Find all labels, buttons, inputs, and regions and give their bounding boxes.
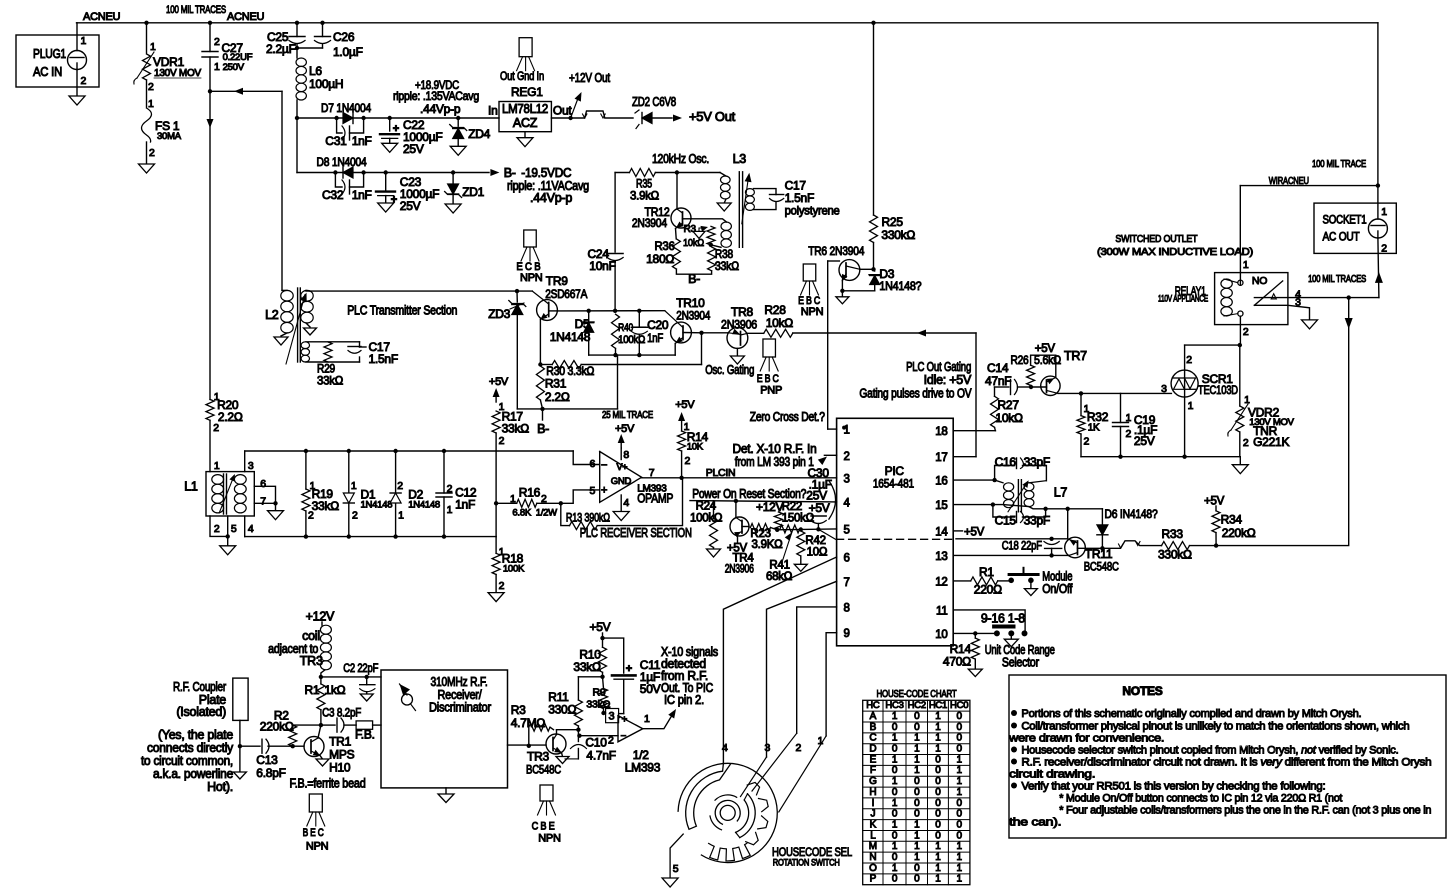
wire PLC out gating xyxy=(793,332,976,334)
svg-text:0: 0 xyxy=(935,765,941,776)
tuning symbol (RF box) xyxy=(400,684,411,695)
svg-text:C: C xyxy=(869,733,876,744)
svg-text:G221K: G221K xyxy=(1253,435,1289,449)
wire PIC pin18 to R27 xyxy=(953,430,995,432)
svg-text:HOUSE-CODE CHART: HOUSE-CODE CHART xyxy=(877,688,958,700)
wire PIC pin10 to selector xyxy=(953,632,997,634)
svg-text:2: 2 xyxy=(499,580,505,592)
resistor R29 33k + capacitor C17 1.5nF tank xyxy=(306,341,360,343)
svg-text:6: 6 xyxy=(590,458,596,470)
svg-text:R34: R34 xyxy=(1221,513,1243,527)
svg-text:R16: R16 xyxy=(519,486,541,500)
svg-text:D7 1N4004: D7 1N4004 xyxy=(321,101,371,115)
package symbol TR8 (E B C PNP) xyxy=(763,339,776,357)
svg-text:Selector: Selector xyxy=(1002,656,1039,670)
varistor VDR1 xyxy=(146,23,148,53)
svg-text:5: 5 xyxy=(673,863,679,875)
wire R26 top / +5V xyxy=(1031,355,1056,377)
wire PIC pin9 to switch wire 1 xyxy=(826,633,837,736)
ground (C2) xyxy=(360,694,373,701)
svg-text:NPN: NPN xyxy=(306,841,329,853)
ground (R18) xyxy=(488,593,504,602)
svg-text:PLC Transmitter Section: PLC Transmitter Section xyxy=(347,304,457,318)
svg-text:2: 2 xyxy=(1243,437,1249,449)
ground (main right) xyxy=(1239,457,1241,465)
wire receiver bottom bus xyxy=(245,536,496,538)
capacitor C31 1nF xyxy=(337,118,342,133)
svg-text:ACNEU: ACNEU xyxy=(227,11,265,23)
svg-text:0: 0 xyxy=(892,809,898,820)
svg-text:L6: L6 xyxy=(309,64,322,78)
ground (opamp pin4) xyxy=(620,495,622,512)
resistor R42 10 xyxy=(797,531,805,556)
trimmer R37 10k xyxy=(707,226,715,245)
svg-text:E: E xyxy=(870,754,877,765)
svg-text:1N4148?: 1N4148? xyxy=(879,279,922,293)
svg-text:0: 0 xyxy=(892,787,898,798)
arrow (current direction left) xyxy=(234,88,243,95)
svg-text:1: 1 xyxy=(892,711,898,722)
wire relay pin2 xyxy=(1239,316,1241,345)
svg-text:C31: C31 xyxy=(325,134,347,148)
ground (selector common) xyxy=(1010,633,1012,639)
wire R20 to L1 xyxy=(209,420,211,471)
svg-text:V+: V+ xyxy=(617,462,628,472)
svg-text:8: 8 xyxy=(623,449,629,461)
svg-text:1: 1 xyxy=(1243,259,1249,271)
ground (R24) xyxy=(707,549,721,557)
wire receiver top bus xyxy=(245,450,574,452)
svg-text:TR7: TR7 xyxy=(1064,349,1087,363)
wire opamp minus input xyxy=(561,490,600,503)
svg-text:C18 22pF: C18 22pF xyxy=(1002,539,1042,553)
package symbol TR3 (C B E NPN) xyxy=(540,785,553,801)
svg-text:47nF: 47nF xyxy=(985,374,1011,388)
package symbol TR6 (E B C NPN) xyxy=(803,264,816,281)
svg-text:5: 5 xyxy=(231,523,237,535)
wire ACNEU top bus xyxy=(77,22,1378,24)
svg-text:330kΩ: 330kΩ xyxy=(881,228,915,242)
wire TR6 base rail to PIC pin1 xyxy=(827,261,829,429)
svg-text:100kΩ: 100kΩ xyxy=(618,334,645,346)
svg-text:R36: R36 xyxy=(655,239,676,253)
ground (module button) xyxy=(1030,580,1032,588)
svg-text:C14: C14 xyxy=(987,361,1009,375)
svg-text:I: I xyxy=(872,798,875,809)
svg-text:Power On Reset Section?: Power On Reset Section? xyxy=(692,487,806,501)
svg-text:VDR1: VDR1 xyxy=(153,55,185,69)
svg-text:+5V: +5V xyxy=(675,399,695,411)
svg-text:D6 IN4148?: D6 IN4148? xyxy=(1105,507,1158,521)
package symbol TR9 (E C B NPN) xyxy=(524,230,537,247)
svg-text:8: 8 xyxy=(844,602,850,614)
svg-text:6.8pF: 6.8pF xyxy=(256,766,285,780)
svg-text:33kΩ: 33kΩ xyxy=(312,499,340,513)
transformer L2 aux winding xyxy=(301,342,309,349)
svg-text:0: 0 xyxy=(935,776,941,787)
svg-text:2: 2 xyxy=(81,75,87,87)
svg-text:25V: 25V xyxy=(1134,434,1155,448)
resistor R35 3.9k xyxy=(615,172,629,174)
svg-text:1: 1 xyxy=(935,733,941,744)
svg-text:0: 0 xyxy=(956,809,962,820)
svg-text:connects directly: connects directly xyxy=(147,741,234,755)
svg-text:E B C: E B C xyxy=(757,373,779,385)
svg-text:L2: L2 xyxy=(265,308,279,322)
svg-text:NOTES: NOTES xyxy=(1122,684,1162,698)
svg-text:1: 1 xyxy=(956,852,962,863)
svg-text:100 MIL TRACES: 100 MIL TRACES xyxy=(1308,274,1366,285)
svg-text:1: 1 xyxy=(892,819,898,830)
svg-text:10Ω: 10Ω xyxy=(807,547,828,559)
rotary switch wire 1 tail xyxy=(779,736,826,812)
arrow L2 adjustment xyxy=(286,295,305,364)
wire TR12 emitter to R36 xyxy=(675,229,678,239)
svg-text:+5V: +5V xyxy=(964,527,985,539)
wire VDR1 to FS1 xyxy=(146,80,148,107)
capacitor C27 0.22UF 250V xyxy=(209,23,211,52)
svg-text:4: 4 xyxy=(623,497,629,509)
svg-text:TR3: TR3 xyxy=(527,750,549,764)
svg-text:R26: R26 xyxy=(1011,353,1029,367)
wire PIC pin7 to switch wire 3 xyxy=(767,581,837,757)
svg-text:C13: C13 xyxy=(256,753,278,767)
svg-text:SWITCHED OUTLET: SWITCHED OUTLET xyxy=(1115,233,1198,245)
svg-text:2N3906: 2N3906 xyxy=(725,564,754,576)
svg-text:9-16 1-8: 9-16 1-8 xyxy=(981,612,1025,626)
svg-text:10: 10 xyxy=(935,629,947,641)
wire L1 pin4 to bottom bus xyxy=(244,516,246,537)
svg-text:R27: R27 xyxy=(998,398,1020,412)
svg-text:220kΩ: 220kΩ xyxy=(260,720,294,734)
svg-text:+5V: +5V xyxy=(809,501,830,515)
svg-text:Portions of this schematic ori: Portions of this schematic originally co… xyxy=(1021,708,1361,720)
svg-text:25V: 25V xyxy=(403,142,424,156)
svg-text:2: 2 xyxy=(1243,326,1249,338)
svg-text:3: 3 xyxy=(248,460,254,472)
svg-text:1: 1 xyxy=(510,493,516,505)
wire switch common 5 to ground xyxy=(670,834,683,878)
resistor R16 6.8K 1/2W xyxy=(496,502,517,504)
svg-text:1: 1 xyxy=(214,61,220,73)
wire relay pin1 (WIRACNEU) xyxy=(1239,252,1241,285)
svg-text:+5V Out: +5V Out xyxy=(689,110,736,124)
wire R17 node down to R16/R18 xyxy=(495,451,497,537)
rotary switch wire 2 tail xyxy=(752,733,797,791)
ground (L1 bottom) xyxy=(220,546,236,555)
resistor R14 470 xyxy=(974,633,976,638)
capacitor C20 1nF xyxy=(638,311,640,328)
svg-text:C15: C15 xyxy=(995,514,1017,528)
svg-text:2: 2 xyxy=(213,422,219,434)
net label B- xyxy=(542,409,544,420)
svg-text:NPN: NPN xyxy=(801,306,824,318)
svg-text:TR3: TR3 xyxy=(300,654,323,668)
svg-text:PNP: PNP xyxy=(760,385,782,397)
ground (L3 primary) xyxy=(724,199,726,203)
ground (ZD1) xyxy=(445,204,461,213)
svg-text:L7: L7 xyxy=(1054,486,1068,500)
wire TR3 collector node xyxy=(557,729,579,731)
wire TR9 emitter down xyxy=(539,319,541,365)
wire C25/C26 join xyxy=(297,47,323,49)
svg-text:0: 0 xyxy=(892,722,898,733)
wire PIC pin1 stub xyxy=(828,428,837,430)
svg-text:1: 1 xyxy=(935,744,941,755)
svg-text:1: 1 xyxy=(935,711,941,722)
svg-text:HC0: HC0 xyxy=(950,700,968,711)
svg-text:the can).: the can). xyxy=(1009,817,1061,829)
svg-text:−: − xyxy=(621,731,627,742)
wire R40 rail down xyxy=(617,355,619,409)
ground (PLUG1) xyxy=(69,96,85,105)
svg-text:to circuit common,: to circuit common, xyxy=(141,754,233,768)
svg-text:0: 0 xyxy=(914,776,920,787)
wire to L2 rail xyxy=(210,90,282,92)
svg-text:1: 1 xyxy=(892,798,898,809)
svg-text:7: 7 xyxy=(260,496,266,508)
op-amp U2b 1/2 LM393 xyxy=(604,712,606,714)
wire PIC pin6 to switch wire 4 xyxy=(723,557,836,763)
wire PIC pin15 xyxy=(953,504,993,506)
svg-text:+5V: +5V xyxy=(590,620,611,634)
svg-text:TEC103D: TEC103D xyxy=(1198,383,1238,397)
wire relay pin2 node xyxy=(1185,344,1240,346)
wire L2 left rail xyxy=(281,91,283,290)
svg-text:30MA: 30MA xyxy=(157,131,182,142)
svg-text:100 MIL TRACE: 100 MIL TRACE xyxy=(1312,159,1366,170)
svg-text:F.B.: F.B. xyxy=(355,728,375,742)
wire L1 pin6/7 xyxy=(254,486,275,503)
svg-text:1K: 1K xyxy=(1088,423,1100,434)
svg-text:A: A xyxy=(870,711,877,722)
svg-text:R42: R42 xyxy=(805,535,825,547)
capacitor C32 1nF xyxy=(335,173,342,188)
svg-text:0: 0 xyxy=(914,863,920,874)
svg-text:120kHz Osc.: 120kHz Osc. xyxy=(652,152,709,166)
svg-text:PLCIN: PLCIN xyxy=(706,467,736,479)
resistor R25 330k xyxy=(873,23,875,215)
svg-text:−: − xyxy=(601,459,607,471)
svg-text:ZD4: ZD4 xyxy=(468,127,490,141)
svg-text:33kΩ: 33kΩ xyxy=(317,374,343,388)
svg-text:0: 0 xyxy=(892,744,898,755)
resistor R31 2.2 xyxy=(536,366,544,400)
svg-text:1: 1 xyxy=(914,830,920,841)
svg-text:10K: 10K xyxy=(687,442,704,453)
svg-text:1: 1 xyxy=(892,841,898,852)
svg-text:1: 1 xyxy=(914,744,920,755)
arrow B- out xyxy=(490,169,499,176)
ground (R14 470) xyxy=(968,669,982,677)
svg-text:33kΩ: 33kΩ xyxy=(715,259,739,273)
ground (relay pin3) xyxy=(1302,320,1318,329)
svg-text:0: 0 xyxy=(956,830,962,841)
svg-text:1: 1 xyxy=(914,754,920,765)
arrow +5V Out xyxy=(673,115,682,122)
wire RF out xyxy=(508,744,547,746)
transformer L2 left winding xyxy=(281,290,293,301)
svg-text:1: 1 xyxy=(644,713,650,725)
svg-text:C32: C32 xyxy=(322,188,344,202)
svg-text:MPS: MPS xyxy=(329,748,355,762)
svg-text:ACZ: ACZ xyxy=(513,116,538,130)
rotary switch HOUSECODE SEL outer ring xyxy=(678,763,777,862)
svg-text:ROTATION SWITCH: ROTATION SWITCH xyxy=(773,858,840,869)
wire REG1 out xyxy=(551,117,570,119)
wire top bus right drop xyxy=(1377,23,1379,186)
svg-text:GND: GND xyxy=(611,476,632,487)
svg-text:2: 2 xyxy=(352,510,358,522)
svg-text:NPN: NPN xyxy=(520,272,543,284)
svg-text:P: P xyxy=(870,874,877,885)
svg-text:Det. X-10 R.F. In: Det. X-10 R.F. In xyxy=(733,442,817,456)
svg-text:+5V: +5V xyxy=(1035,343,1056,355)
svg-text:0: 0 xyxy=(935,798,941,809)
svg-text:1.5nF: 1.5nF xyxy=(369,352,398,366)
svg-text:2N3904: 2N3904 xyxy=(632,216,667,230)
svg-text:5: 5 xyxy=(590,485,596,497)
svg-text:1: 1 xyxy=(1244,394,1250,406)
wire TR6 emitter xyxy=(841,281,843,291)
rotary switch bottom teeth xyxy=(709,843,751,861)
svg-text:+: + xyxy=(622,715,628,726)
svg-text:1nF: 1nF xyxy=(647,331,663,345)
svg-text:2: 2 xyxy=(1381,243,1387,255)
connector PLUG1 AC IN xyxy=(16,35,99,87)
svg-text:2: 2 xyxy=(214,523,220,535)
svg-text:3.9KΩ: 3.9KΩ xyxy=(752,539,784,551)
svg-text:In: In xyxy=(488,104,498,118)
svg-text:0: 0 xyxy=(935,787,941,798)
svg-text:2: 2 xyxy=(148,81,154,93)
resistor R1 220 (pin12) xyxy=(953,580,971,582)
svg-text:1: 1 xyxy=(1381,206,1387,218)
rotary switch teeth right xyxy=(746,832,759,844)
svg-text:Zero Cross Det.?: Zero Cross Det.? xyxy=(750,410,825,424)
svg-text:0: 0 xyxy=(956,744,962,755)
svg-text:B: B xyxy=(870,722,877,733)
svg-text:1: 1 xyxy=(447,504,453,516)
ground (FS1) xyxy=(139,164,155,173)
wire PIC pin11 to selector xyxy=(953,610,1025,634)
svg-text:B-: B- xyxy=(504,166,516,180)
svg-text:0: 0 xyxy=(956,819,962,830)
svg-text:from LM 393 pin 1: from LM 393 pin 1 xyxy=(735,455,814,469)
package symbol REG1 (Out Gnd In) xyxy=(519,38,532,57)
resistor R27 10k xyxy=(991,396,999,427)
svg-text:AC IN: AC IN xyxy=(33,65,62,79)
svg-text:Verify that your RR501 is this: Verify that your RR501 is this version b… xyxy=(1021,781,1325,793)
svg-text:2: 2 xyxy=(397,480,403,492)
svg-text:1: 1 xyxy=(956,874,962,885)
wire opamp output PLCIN xyxy=(642,477,837,479)
ground (L2 left) xyxy=(281,333,287,336)
pushbutton Module On/Off xyxy=(1008,578,1014,584)
svg-text:330kΩ: 330kΩ xyxy=(1158,548,1192,562)
wire B- node xyxy=(517,408,617,410)
svg-text:100µH: 100µH xyxy=(309,77,343,91)
svg-text:NPN: NPN xyxy=(538,833,561,845)
svg-text:1: 1 xyxy=(150,41,156,53)
svg-text:1: 1 xyxy=(956,754,962,765)
svg-text:100K: 100K xyxy=(503,564,525,575)
ground (switch common) xyxy=(662,878,678,887)
zener ZD1 xyxy=(452,173,454,184)
svg-text:R.F. Coupler: R.F. Coupler xyxy=(173,680,226,694)
svg-text:6: 6 xyxy=(260,478,266,490)
arrow +12V Out xyxy=(571,97,579,118)
svg-text:C10: C10 xyxy=(585,736,607,750)
node R38/L3 xyxy=(709,243,713,247)
wire dashed rail to TR11 xyxy=(956,538,1068,540)
svg-text:180Ω: 180Ω xyxy=(646,252,674,266)
svg-text:5: 5 xyxy=(844,524,850,536)
wire TR7 emitter to SCR gate xyxy=(1058,392,1171,394)
rotary switch center pad xyxy=(720,805,735,820)
wire L7 secondary out xyxy=(993,505,1103,509)
wire opamp plus input xyxy=(573,451,600,465)
svg-text:50V: 50V xyxy=(640,682,661,696)
svg-text:0: 0 xyxy=(935,819,941,830)
svg-text:H10: H10 xyxy=(329,761,351,775)
wire +5V to C11 xyxy=(603,638,624,673)
svg-text:16: 16 xyxy=(935,476,947,488)
svg-text:2.2Ω: 2.2Ω xyxy=(218,410,243,424)
svg-text:100kΩ: 100kΩ xyxy=(690,513,723,525)
svg-text:220Ω: 220Ω xyxy=(974,583,1002,597)
svg-text:M: M xyxy=(869,841,877,852)
wire PIC pin2 stub + arrow xyxy=(824,454,836,456)
svg-text:1kΩ: 1kΩ xyxy=(324,683,345,697)
svg-text:.44Vp-p: .44Vp-p xyxy=(420,102,461,116)
svg-text:+5V: +5V xyxy=(489,376,509,388)
notes box xyxy=(1009,675,1446,838)
svg-text:N: N xyxy=(869,852,876,863)
wire PIC pin5 xyxy=(777,528,836,531)
svg-text:0: 0 xyxy=(892,874,898,885)
svg-text:+5V: +5V xyxy=(615,423,635,435)
svg-text:0: 0 xyxy=(914,711,920,722)
svg-text:33kΩ: 33kΩ xyxy=(502,422,530,436)
svg-text:2: 2 xyxy=(149,147,155,159)
svg-text:3: 3 xyxy=(844,473,850,485)
svg-text:+12V: +12V xyxy=(306,610,335,624)
wire TR12 collector to L3 sec xyxy=(691,219,726,222)
capacitor C25 2.2uF xyxy=(296,23,298,37)
diode D3 1N4148? xyxy=(874,269,875,271)
svg-text:L: L xyxy=(870,830,876,841)
trimmer R41 68k xyxy=(780,525,800,533)
svg-text:D8 1N4004: D8 1N4004 xyxy=(317,155,367,169)
svg-text:1: 1 xyxy=(956,863,962,874)
svg-text:2: 2 xyxy=(844,451,850,463)
svg-text:K: K xyxy=(870,819,877,830)
svg-text:4: 4 xyxy=(844,497,851,509)
svg-text:WIRACNEU: WIRACNEU xyxy=(1269,176,1309,187)
svg-text:25V: 25V xyxy=(400,199,421,213)
wire opamp2 minus input xyxy=(578,730,618,736)
svg-text:6.8K 1/2W: 6.8K 1/2W xyxy=(512,508,557,519)
svg-text:1N4148: 1N4148 xyxy=(361,500,393,511)
svg-text:(Isolated): (Isolated) xyxy=(176,705,226,719)
svg-text:C B E: C B E xyxy=(532,821,555,833)
svg-text:2: 2 xyxy=(685,455,691,467)
zener ZD4 xyxy=(457,118,459,126)
svg-text:ZD2 C6V8: ZD2 C6V8 xyxy=(632,95,676,109)
svg-text:2: 2 xyxy=(1084,436,1090,448)
IC U1 PIC 1654-481 xyxy=(837,418,954,646)
